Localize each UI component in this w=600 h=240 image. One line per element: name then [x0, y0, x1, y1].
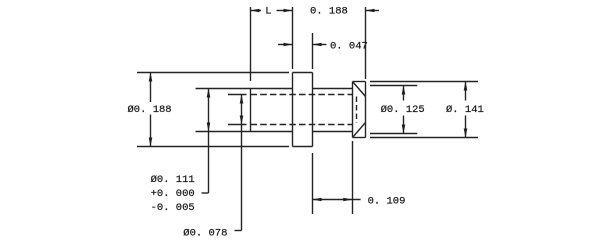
svg-text:Ø0. 188: Ø0. 188 [128, 104, 172, 116]
svg-text:0. 047: 0. 047 [330, 41, 368, 53]
svg-text:Ø0. 125: Ø0. 125 [381, 104, 425, 116]
svg-text:Ø0. 078: Ø0. 078 [183, 228, 227, 240]
svg-text:0. 188: 0. 188 [310, 5, 348, 17]
svg-text:+0. 000: +0. 000 [151, 188, 195, 200]
svg-text:Ø. 141: Ø. 141 [446, 104, 484, 116]
svg-text:-0. 005: -0. 005 [151, 202, 195, 214]
svg-text:0. 109: 0. 109 [368, 196, 406, 208]
svg-text:Ø0. 111: Ø0. 111 [151, 174, 195, 186]
svg-text:L: L [265, 5, 271, 17]
